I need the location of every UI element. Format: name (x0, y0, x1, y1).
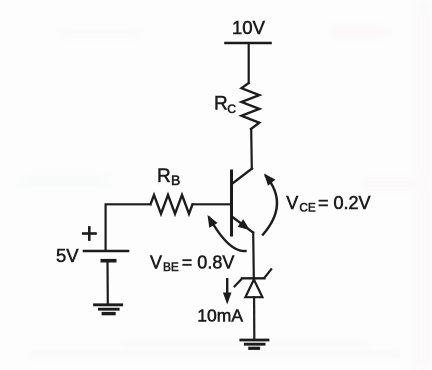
svg-text:C: C (227, 102, 236, 116)
base bar (230, 171, 233, 235)
emitter diagonal (232, 217, 253, 233)
ground (bottom) (241, 340, 268, 348)
svg-text:V: V (286, 193, 298, 213)
plus sign (83, 227, 95, 239)
svg-text:V: V (150, 252, 162, 272)
battery short plate (102, 259, 114, 263)
emitter arrowhead (238, 219, 250, 230)
zener left tick (235, 279, 242, 287)
resistor RB (151, 195, 193, 214)
svg-text:R: R (157, 166, 171, 187)
wire zener to ground (253, 297, 255, 339)
label VBE = 0.8V (150, 252, 234, 274)
supply rail bar (226, 42, 271, 45)
zener cathode bar (242, 277, 264, 279)
label RB (157, 166, 180, 188)
svg-text:B: B (171, 172, 180, 188)
svg-text:= 0.2V: = 0.2V (318, 193, 371, 213)
zener triangle (245, 280, 262, 298)
resistor RC (241, 83, 259, 129)
annotation arrow VBE (208, 215, 246, 251)
svg-text:R: R (214, 94, 228, 115)
zener diode D1 (235, 269, 272, 297)
battery V1 (84, 251, 128, 261)
wire RC to collector (250, 129, 253, 169)
svg-text:BE: BE (163, 260, 179, 274)
battery long plate (84, 250, 128, 253)
wire RB to battery corner (106, 204, 151, 250)
svg-text:5V: 5V (56, 245, 79, 266)
zener right tick (264, 269, 271, 278)
collector diagonal (232, 169, 252, 185)
svg-text:= 0.8V: = 0.8V (182, 252, 235, 272)
wire battery to ground (106, 262, 109, 304)
wire supply to RC (248, 44, 250, 83)
ground (left) (95, 305, 122, 314)
label RC (214, 94, 236, 116)
current arrow 10mA (223, 279, 232, 304)
transistor Q1 (232, 169, 254, 236)
wire base from RB (193, 203, 231, 205)
label VCE = 0.2V (286, 193, 370, 215)
svg-text:10V: 10V (232, 17, 266, 38)
svg-text:10mA: 10mA (197, 306, 243, 326)
annotation arrow VCE (263, 174, 277, 235)
wire emitter down to zener (252, 233, 255, 279)
svg-text:CE: CE (299, 201, 316, 215)
